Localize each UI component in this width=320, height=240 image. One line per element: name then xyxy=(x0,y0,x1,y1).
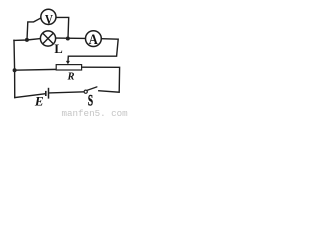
wire bottom left (to battery negative plate) xyxy=(15,94,45,98)
svg-text:L: L xyxy=(54,42,62,56)
wire left vertical (main loop left side) xyxy=(13,40,16,97)
battery E short plate (negative) xyxy=(45,91,47,96)
junction dot (left vertical / rheostat branch) xyxy=(13,68,17,72)
wire battery positive to switch pivot xyxy=(49,92,84,93)
ammeter circle xyxy=(86,31,102,47)
svg-text:manfen5. com: manfen5. com xyxy=(62,108,129,118)
lamp L circle with X xyxy=(40,31,55,46)
wire rheostat right, down right side, to switch xyxy=(82,67,120,92)
wire lamp row left (left corner to lamp) xyxy=(14,39,40,41)
svg-text:E: E xyxy=(34,94,44,109)
wire ammeter right and down to slider rail xyxy=(68,39,118,61)
voltmeter V circle xyxy=(41,9,56,24)
svg-text:A: A xyxy=(89,32,98,48)
switch S pivot circle xyxy=(84,90,87,93)
svg-text:R: R xyxy=(66,72,74,83)
wire V-loop right (from voltmeter right down to lamp/ammeter junction) xyxy=(57,17,69,38)
wire lamp to ammeter xyxy=(56,37,85,39)
battery E long plate (positive) xyxy=(48,88,50,99)
rheostat R body box xyxy=(56,65,81,70)
wire rheostat left (from left-vertical junction to box) xyxy=(15,68,57,71)
junction dot (lamp/ammeter, V-loop tap) xyxy=(66,37,70,41)
svg-text:V: V xyxy=(45,12,53,28)
switch S blade xyxy=(87,87,97,90)
wire V-loop left (from voltmeter left down to lamp-row junction) xyxy=(27,18,40,40)
rheostat R slider arrowhead xyxy=(66,61,70,65)
junction dot (lamp row left, V-loop tap) xyxy=(25,38,29,42)
svg-text:S: S xyxy=(88,92,93,109)
